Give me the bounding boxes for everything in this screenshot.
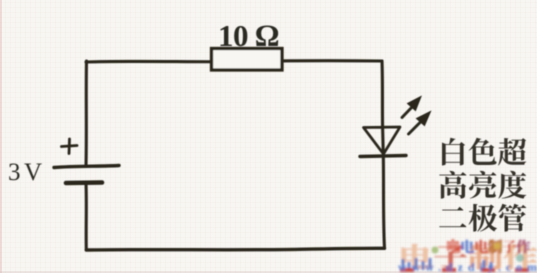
annotation text 白色超: [442, 138, 465, 166]
watermark logo: [398, 240, 537, 273]
annotation text 高亮度: [439, 171, 466, 199]
annotation text 二极管: [439, 207, 466, 227]
svg-text:10 Ω: 10 Ω: [218, 18, 279, 53]
battery plus sign: [62, 139, 78, 154]
LED light arrow 1: [402, 106, 413, 118]
battery B1 negative short plate: [66, 180, 102, 185]
LED light arrow 2: [409, 122, 422, 135]
svg-text:3V: 3V: [8, 159, 42, 186]
wire left lower: [84, 183, 87, 250]
LED D1 triangle (anode): [364, 127, 401, 154]
wire bottom: [86, 248, 384, 250]
battery B1 positive long plate: [54, 166, 119, 168]
wire right lower: [383, 156, 384, 248]
svg-text:www.dzdiy.com: www.dzdiy.com: [398, 260, 537, 273]
resistor R 10ohm body: [212, 49, 283, 71]
wire right upper through LED: [382, 61, 383, 155]
wire left upper: [84, 61, 88, 166]
LED D1 cathode bar: [360, 156, 406, 157]
wire top: [86, 61, 382, 62]
